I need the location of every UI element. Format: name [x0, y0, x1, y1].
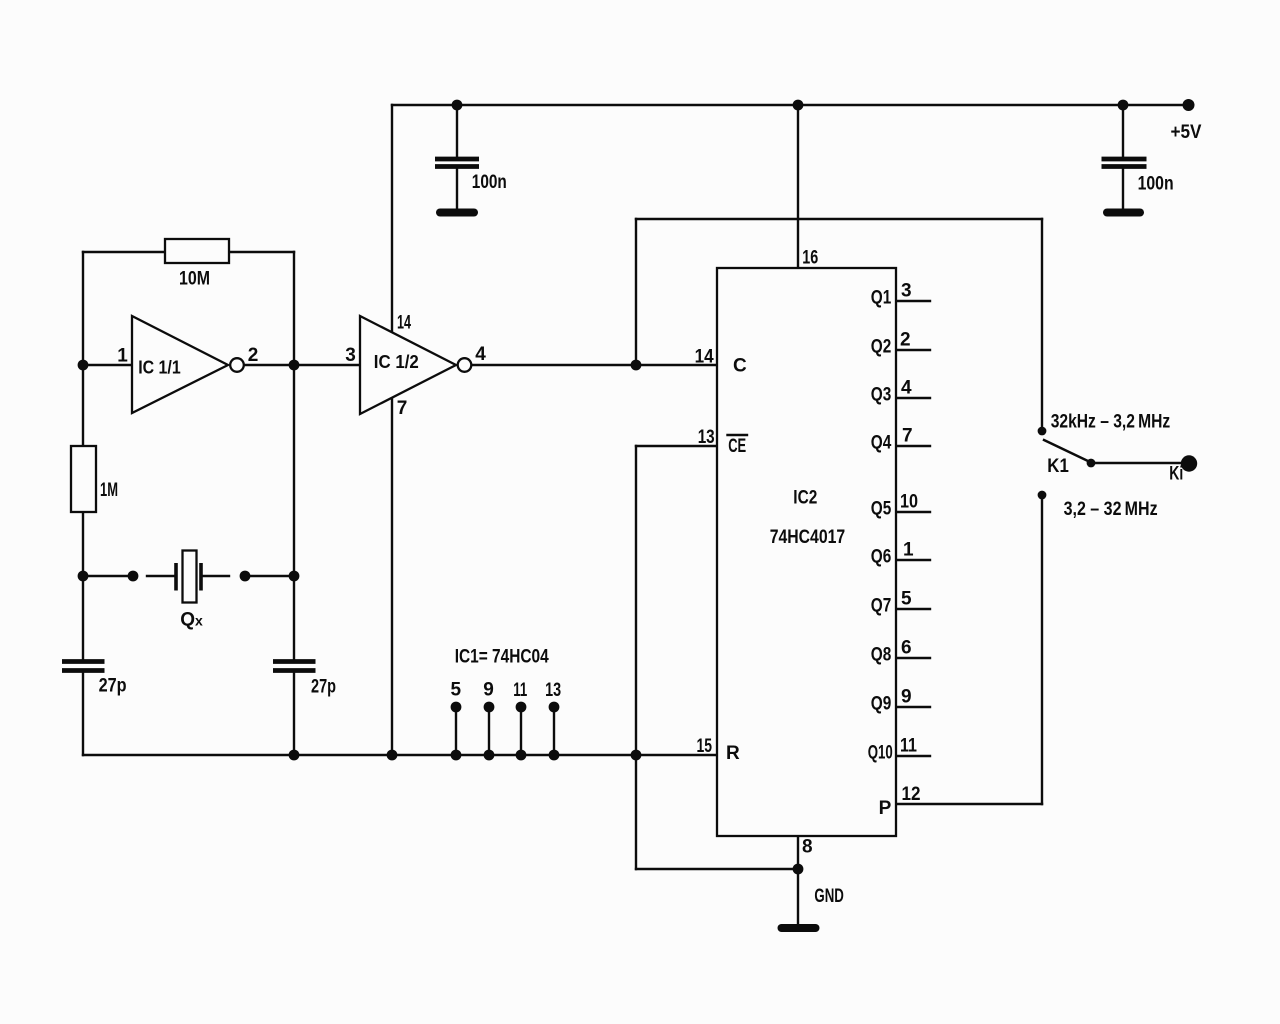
node rail junction pin9: [484, 750, 495, 761]
capacitor C1 100n plates: [435, 157, 479, 162]
svg-text:K1: K1: [1047, 456, 1069, 477]
svg-text:3: 3: [901, 281, 912, 302]
svg-text:10M: 10M: [179, 269, 210, 290]
svg-text:1: 1: [903, 540, 914, 561]
node crystal left terminal: [128, 571, 139, 582]
wire IC2 Q1 pin 3 stub: [896, 300, 930, 302]
node rail junction pin13: [549, 750, 560, 761]
svg-text:7: 7: [902, 426, 913, 447]
node IC1 pin5 top: [451, 702, 462, 713]
svg-text:2: 2: [900, 330, 911, 351]
resistor R1 10M: [165, 239, 229, 263]
svg-text:Q1: Q1: [871, 288, 892, 309]
svg-text:11: 11: [900, 736, 917, 757]
svg-text:2: 2: [248, 345, 259, 366]
svg-text:10: 10: [900, 492, 918, 513]
svg-text:8: 8: [802, 837, 813, 858]
wire IC2 Q2 pin 2 stub: [896, 349, 930, 351]
svg-text:R: R: [726, 743, 740, 764]
svg-text:Q6: Q6: [871, 547, 892, 568]
wire ground horizontal to pin 8: [636, 868, 798, 870]
svg-text:13: 13: [698, 427, 715, 448]
svg-text:9: 9: [483, 680, 494, 701]
svg-text:7: 7: [397, 398, 408, 419]
wire crystal left lead: [147, 575, 176, 577]
wire clock node vertical: [635, 219, 637, 365]
svg-text:+5V: +5V: [1171, 122, 1202, 143]
svg-text:Qx: Qx: [180, 610, 203, 631]
svg-text:11: 11: [513, 680, 527, 701]
node crystal right terminal: [240, 571, 251, 582]
node ground junction under pin 8: [793, 864, 804, 875]
svg-text:IC2: IC2: [793, 488, 817, 509]
crystal Qx left plate: [174, 563, 178, 591]
node IC1 pin11 top: [516, 702, 527, 713]
svg-text:Q7: Q7: [871, 596, 892, 617]
svg-text:Q9: Q9: [871, 694, 892, 715]
wire CE ground vertical: [635, 446, 637, 869]
svg-text:100n: 100n: [472, 172, 507, 193]
svg-text:Q8: Q8: [871, 645, 892, 666]
svg-text:1M: 1M: [100, 480, 118, 501]
wire IC1 pin 9 stub: [488, 707, 490, 755]
capacitor C3 27p left plates: [62, 659, 105, 664]
node rail junction pin5: [451, 750, 462, 761]
node junction C2 / rail: [1118, 100, 1129, 111]
IC U2 74HC4017 box: [717, 268, 896, 836]
node rail junction pin11: [516, 750, 527, 761]
node IC1/1 input junction: [78, 360, 89, 371]
ground bar under C1: [440, 209, 474, 217]
svg-text:Ki: Ki: [1169, 464, 1183, 485]
inverter IC1/1 bubble: [230, 358, 244, 372]
svg-text:13: 13: [545, 680, 561, 701]
crystal Qx right plate: [199, 563, 203, 591]
wire C2 top lead: [1122, 105, 1124, 157]
node K1 lower contact: [1038, 491, 1047, 500]
wire K1 lever: [1044, 440, 1090, 462]
wire IC2 Q5 pin 10 stub: [896, 511, 930, 513]
node IC1 pin13 top: [549, 702, 560, 713]
svg-text:27p: 27p: [99, 676, 127, 697]
wire +5V top rail: [392, 104, 1191, 106]
wire IC2 Q7 pin 5 stub: [896, 608, 930, 610]
svg-text:3: 3: [345, 345, 356, 366]
wire IC1 pin 11 stub: [520, 707, 522, 755]
wire bottom ground rail: [83, 754, 717, 756]
wire IC2 pin 16 supply: [797, 105, 799, 268]
overline of CE: [728, 434, 748, 436]
wire feedback top: [83, 251, 294, 253]
svg-text:12: 12: [902, 784, 921, 805]
wire feedback right vertical upper: [293, 252, 295, 660]
inverter IC1/1 triangle: [132, 316, 228, 413]
inverter IC1/2 bubble: [458, 358, 472, 372]
svg-text:Q4: Q4: [871, 433, 892, 454]
svg-text:14: 14: [695, 347, 714, 368]
svg-text:4: 4: [901, 378, 912, 399]
node crystal left rail junction: [78, 571, 89, 582]
wire clock to switch horizontal: [636, 218, 1042, 220]
svg-text:74HC4017: 74HC4017: [770, 527, 846, 548]
svg-text:IC 1/1: IC 1/1: [138, 357, 181, 378]
node clock junction: [631, 360, 642, 371]
wire IC2 CE pin 13: [636, 445, 717, 447]
node K1 upper contact: [1038, 427, 1047, 436]
svg-text:5: 5: [451, 680, 462, 701]
wire feedback right vertical lower: [293, 672, 295, 755]
wire crystal left: [83, 575, 133, 577]
resistor R2 1M: [71, 446, 96, 512]
svg-text:9: 9: [901, 687, 912, 708]
wire IC1/1 output to IC1/2 input: [244, 364, 360, 366]
wire IC2 Q8 pin 6 stub: [896, 657, 930, 659]
wire pole to Ki terminal: [1091, 462, 1189, 464]
svg-text:GND: GND: [814, 886, 844, 907]
svg-text:C: C: [733, 356, 747, 377]
wire crystal right lead: [201, 575, 229, 577]
svg-text:IC 1/2: IC 1/2: [374, 351, 419, 372]
crystal Qx body: [183, 551, 197, 603]
node K1 pole: [1087, 459, 1096, 468]
wire IC2 Q6 pin 1 stub: [896, 559, 930, 561]
svg-text:100n: 100n: [1138, 173, 1174, 194]
node rail junction x392: [387, 750, 398, 761]
svg-text:5: 5: [901, 589, 912, 610]
wire switch lower contact vertical: [1041, 498, 1043, 804]
svg-text:16: 16: [802, 248, 818, 269]
svg-text:3,2 – 32 MHz: 3,2 – 32 MHz: [1064, 499, 1158, 520]
wire left oscillator vertical upper: [82, 252, 84, 660]
svg-text:4: 4: [475, 344, 486, 365]
wire IC1/1 input pin 1: [83, 364, 132, 366]
svg-text:P: P: [879, 798, 892, 819]
node junction pin16 / rail: [793, 100, 804, 111]
wire IC2 Q10 pin 11 stub: [896, 755, 930, 757]
wire IC2 pin 12 P: [896, 803, 1042, 805]
capacitor C2 100n plates: [1102, 157, 1147, 162]
svg-text:Q3: Q3: [871, 385, 892, 406]
svg-text:32kHz – 3,2 MHz: 32kHz – 3,2 MHz: [1051, 412, 1171, 433]
capacitor C4 27p right plates: [273, 659, 316, 664]
ground bar under C2: [1107, 209, 1140, 217]
svg-text:IC1= 74HC04: IC1= 74HC04: [455, 647, 549, 668]
wire crystal right: [251, 575, 294, 577]
wire switch upper contact vertical: [1041, 219, 1043, 428]
svg-text:14: 14: [397, 313, 411, 334]
node +5V terminal: [1183, 99, 1195, 111]
wire IC1 pin 5 stub: [455, 707, 457, 755]
node IC1/1 output junction: [289, 360, 300, 371]
wire IC1/2 output to IC2 pin 14: [472, 364, 717, 366]
wire C1 top lead: [456, 105, 458, 157]
svg-text:1: 1: [117, 346, 128, 367]
wire IC2 pin 8 to ground: [797, 836, 799, 923]
svg-text:Q10: Q10: [868, 743, 893, 764]
node rail junction x636: [631, 750, 642, 761]
wire C2 bottom lead: [1122, 167, 1124, 212]
svg-text:CE: CE: [728, 436, 746, 457]
svg-text:27p: 27p: [311, 677, 336, 698]
svg-text:Q5: Q5: [871, 499, 892, 520]
svg-text:6: 6: [901, 638, 912, 659]
inverter IC1/2 triangle: [360, 316, 456, 414]
svg-text:Q2: Q2: [871, 337, 892, 358]
wire C1 bottom lead: [456, 167, 458, 212]
wire IC1 pin 13 stub: [553, 707, 555, 755]
wire IC1 supply vertical (to pins 14/7): [391, 105, 393, 755]
wire left oscillator vertical lower: [82, 672, 84, 755]
ground symbol under pin 8: [782, 924, 816, 932]
node IC1 pin9 top: [484, 702, 495, 713]
node rail junction x294: [289, 750, 300, 761]
node crystal right rail junction: [289, 571, 300, 582]
wire IC2 Q4 pin 7 stub: [896, 445, 930, 447]
node junction C1 / rail: [452, 100, 463, 111]
svg-text:15: 15: [697, 736, 713, 757]
node Ki output terminal: [1181, 455, 1197, 471]
wire IC2 Q3 pin 4 stub: [896, 397, 930, 399]
wire IC2 Q9 pin 9 stub: [896, 706, 930, 708]
